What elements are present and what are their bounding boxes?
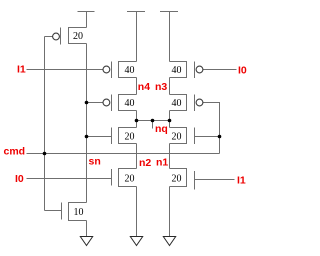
svg-text:n3: n3: [155, 81, 167, 93]
wire I1 to U2 bubble: [27, 69, 104, 71]
wire nq to U6 drain: [136, 121, 138, 128]
M10 gate bar: [61, 203, 63, 220]
U5 gate bar: [194, 95, 196, 112]
wire U9 gate to I1: [195, 179, 235, 181]
ground symbol left: [80, 237, 92, 246]
wire U5 bubble to cmd feedback: [203, 103, 220, 154]
wire nq stub: [152, 121, 154, 129]
svg-text:20: 20: [73, 31, 83, 42]
vdd rail 3 (right branch): [160, 11, 178, 13]
U2 gate bar: [111, 62, 113, 79]
transistor U7 NMOS 20 (right, gate=cmd) channel box: [170, 128, 187, 144]
M1 gate bubble: [53, 33, 60, 40]
U7 gate bar: [194, 128, 196, 145]
U5 gate bubble: [196, 99, 203, 106]
U3 gate bar: [194, 62, 196, 79]
wire node n1 (right chain): [169, 144, 171, 169]
junction dot sn/U6: [85, 135, 89, 139]
svg-text:20: 20: [172, 132, 182, 143]
U4 gate bubble: [103, 99, 110, 106]
wire node nq rail: [137, 120, 170, 122]
transistor M10 NMOS 10 (pulldown, gate=cmd) channel box: [69, 203, 87, 221]
svg-text:40: 40: [172, 98, 182, 109]
svg-text:40: 40: [172, 65, 182, 76]
junction dot cmd/A: [43, 152, 47, 156]
vdd rail 2 (left branch): [127, 11, 145, 13]
svg-text:n2: n2: [139, 157, 151, 169]
wire sn to U4 bubble: [87, 102, 104, 104]
svg-text:20: 20: [125, 132, 135, 143]
svg-text:40: 40: [125, 65, 135, 76]
U6 gate bar: [111, 128, 113, 145]
wire M10 source to ground: [86, 221, 88, 237]
svg-text:20: 20: [172, 174, 182, 185]
svg-text:10: 10: [74, 207, 84, 218]
wire vdd3 to right 40 source: [169, 12, 171, 62]
wire U8 source to ground: [136, 187, 138, 237]
wire U5 drain to nq rail: [169, 111, 171, 121]
transistor U8 NMOS 20 (left, gate=I0) channel box: [119, 169, 137, 187]
svg-text:I0: I0: [15, 173, 24, 185]
svg-text:I1: I1: [237, 175, 246, 187]
wire sn to U6 gate: [87, 136, 112, 138]
transistor U5 PMOS 40 (right, gate=cmd) channel box: [170, 95, 187, 111]
wire M1 drain down (node sn): [86, 44, 88, 203]
U4 gate bar: [111, 95, 113, 112]
wire vdd1 to PMOS 20 source: [86, 12, 88, 28]
svg-text:I0: I0: [238, 65, 247, 77]
ground symbol right: [163, 237, 175, 246]
svg-text:20: 20: [125, 174, 135, 185]
U8 gate bar: [111, 169, 113, 186]
junction dot nq right: [168, 119, 172, 123]
ground symbol middle: [130, 237, 142, 246]
U2 gate bubble: [103, 66, 110, 73]
wire A to M10 gate: [45, 210, 62, 212]
wire U9 source to ground: [169, 187, 171, 237]
vdd rail 1 (over M_sn PMOS): [78, 11, 95, 13]
svg-text:n4: n4: [138, 81, 150, 93]
transistor U2 PMOS 40 (left, gate=I1) channel box: [119, 62, 137, 78]
wire node n4 (left chain): [136, 78, 138, 95]
U3 gate bubble: [196, 66, 203, 73]
wire I0 to U8 gate: [27, 178, 112, 180]
wire U7 gate to cmd feedback: [195, 136, 220, 138]
wire vdd2 to left 40 source: [136, 12, 138, 62]
wire node n2 (left chain): [136, 144, 138, 169]
svg-text:cmd: cmd: [4, 146, 26, 158]
junction dot nq middle: [151, 119, 155, 123]
wire cmd vertical line A: [44, 37, 46, 211]
wire U4 drain to nq rail: [136, 111, 138, 121]
junction dot nq left: [135, 119, 139, 123]
junction dot cmd feedback/U7 gate: [218, 135, 222, 139]
wire A to M1 gate bubble: [45, 36, 53, 38]
wire cmd horizontal: [27, 153, 220, 155]
transistor U6 NMOS 20 (left, gate=sn) channel box: [119, 128, 137, 144]
svg-text:n1: n1: [156, 157, 168, 169]
wire nq to U7 drain: [169, 121, 171, 128]
transistor M1 PMOS 20 (top-left, gate=cmd) channel box: [69, 28, 87, 44]
M1 gate bar: [60, 28, 62, 45]
svg-text:nq: nq: [155, 123, 168, 135]
transistor U9 NMOS 20 (right, gate=I1) channel box: [170, 169, 187, 187]
svg-text:I1: I1: [17, 64, 26, 76]
wire U3 bubble to I0: [203, 69, 237, 71]
transistor U4 PMOS 40 (left, gate=sn) channel box: [119, 95, 137, 111]
U9 gate bar: [194, 171, 196, 190]
svg-text:sn: sn: [89, 156, 101, 168]
wire node n3 (right chain): [169, 78, 171, 95]
transistor U3 PMOS 40 (right, gate=I0) channel box: [170, 62, 187, 78]
svg-text:40: 40: [125, 98, 135, 109]
junction dot sn/U4: [85, 101, 89, 105]
